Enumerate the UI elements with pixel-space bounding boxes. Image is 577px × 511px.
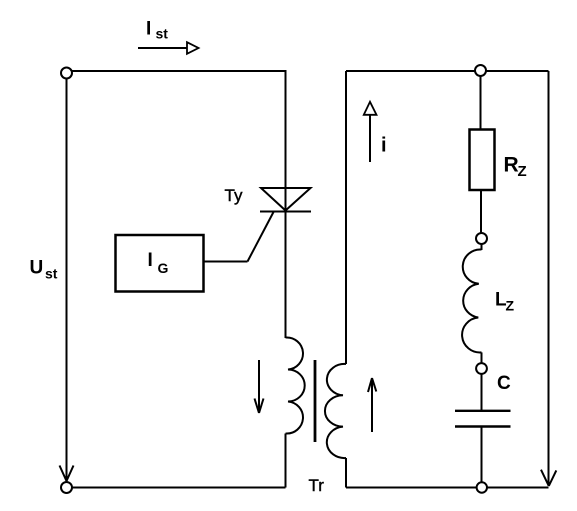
svg-text:Z: Z bbox=[518, 163, 527, 180]
svg-text:Tr: Tr bbox=[309, 476, 325, 495]
wire primary bottom bbox=[285, 434, 287, 488]
svg-text:I: I bbox=[148, 250, 153, 271]
arrow i bbox=[364, 102, 377, 162]
wire capacitor to node bbox=[481, 428, 483, 483]
wire top-left horizontal bbox=[72, 70, 287, 72]
wire thyristor anode vertical bbox=[285, 71, 287, 338]
box I_G bbox=[116, 235, 204, 292]
wire bottom-left horizontal bbox=[72, 487, 286, 489]
thyristor Ty cathode bar bbox=[260, 211, 311, 213]
wire top-right horizontal bbox=[346, 70, 549, 72]
wire resistor to node bbox=[480, 190, 482, 234]
node bottom-left bbox=[61, 482, 72, 493]
wire right vertical bbox=[548, 71, 550, 486]
wire inductor to node bbox=[481, 352, 483, 363]
label I_st bbox=[146, 18, 168, 41]
wire left vertical bbox=[66, 79, 68, 481]
label I_G bbox=[148, 250, 169, 276]
svg-text:st: st bbox=[156, 26, 169, 42]
thyristor Ty triangle bbox=[261, 188, 311, 211]
svg-text:C: C bbox=[497, 373, 511, 394]
label L_Z bbox=[495, 290, 515, 314]
wire node to capacitor bbox=[481, 374, 483, 411]
wire node to resistor bbox=[480, 76, 482, 130]
node inductor-capacitor bbox=[476, 363, 487, 374]
arrow secondary current up bbox=[368, 378, 376, 432]
transformer core bbox=[314, 360, 317, 442]
node top load bbox=[475, 65, 486, 76]
capacitor C bottom plate bbox=[455, 425, 511, 427]
svg-text:G: G bbox=[158, 260, 169, 276]
capacitor C top plate bbox=[455, 410, 511, 412]
resistor R_Z bbox=[470, 130, 495, 191]
svg-text:Ty: Ty bbox=[225, 186, 243, 205]
arrow primary current down bbox=[255, 360, 264, 413]
arrowhead right down bbox=[541, 470, 556, 486]
node resistor-inductor bbox=[476, 233, 487, 244]
label U_st bbox=[30, 258, 58, 282]
transformer Tr primary coil bbox=[286, 337, 305, 433]
svg-text:U: U bbox=[30, 258, 44, 279]
wire gate diagonal bbox=[248, 212, 274, 262]
svg-text:I: I bbox=[146, 18, 151, 39]
arrowhead U_st down bbox=[60, 466, 74, 482]
wire gate horizontal bbox=[205, 261, 248, 263]
wire bottom-right horizontal bbox=[346, 487, 549, 489]
node bottom load bbox=[477, 482, 487, 492]
inductor L_Z bbox=[462, 249, 481, 352]
arrow I_st bbox=[138, 42, 199, 54]
svg-text:st: st bbox=[45, 265, 58, 281]
wire secondary top vertical bbox=[345, 71, 347, 364]
svg-text:Z: Z bbox=[506, 298, 515, 314]
label R_Z bbox=[504, 154, 527, 180]
wire secondary bottom bbox=[345, 458, 347, 488]
transformer Tr secondary coil bbox=[325, 364, 346, 458]
svg-text:R: R bbox=[504, 154, 519, 177]
wire node to inductor bbox=[481, 244, 483, 250]
node top-left bbox=[61, 68, 72, 79]
svg-text:i: i bbox=[381, 135, 387, 157]
